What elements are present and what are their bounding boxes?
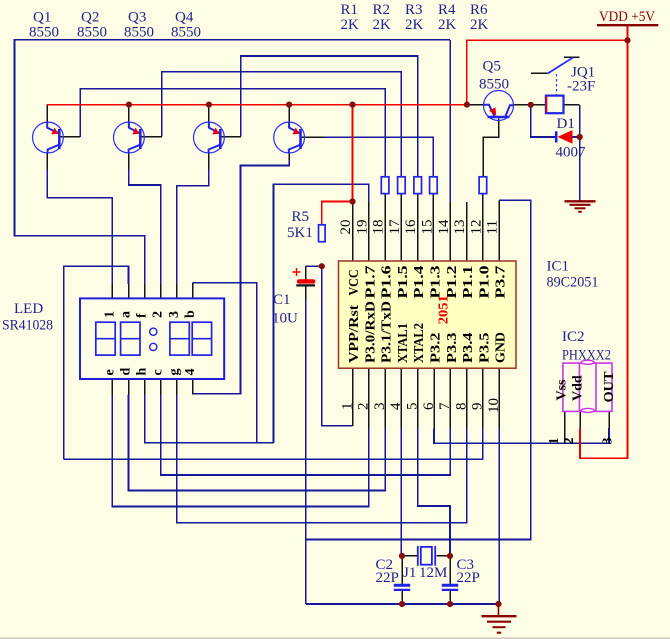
svg-text:89C2051: 89C2051 (547, 275, 599, 291)
svg-text:7: 7 (437, 402, 453, 410)
svg-text:P3.5: P3.5 (477, 333, 492, 364)
svg-text:a: a (119, 311, 134, 318)
svg-text:Vdd: Vdd (571, 375, 586, 401)
svg-text:P3.3: P3.3 (445, 333, 460, 364)
svg-text:VPP/Rst: VPP/Rst (347, 305, 362, 363)
svg-text:R1: R1 (341, 2, 359, 18)
svg-text:R4: R4 (438, 2, 456, 18)
svg-text:1: 1 (339, 403, 355, 411)
svg-text:Q4: Q4 (175, 10, 194, 26)
svg-text:12: 12 (468, 220, 484, 235)
svg-text:2K: 2K (373, 17, 392, 33)
svg-text:19: 19 (354, 220, 370, 235)
svg-text:1: 1 (102, 311, 117, 318)
svg-text:14: 14 (436, 219, 452, 235)
svg-text:10: 10 (486, 398, 502, 413)
svg-text:5: 5 (405, 403, 421, 411)
svg-text:b: b (183, 310, 198, 318)
svg-text:13: 13 (452, 220, 468, 235)
svg-text:PHXXX2: PHXXX2 (562, 348, 611, 364)
svg-text:10U: 10U (272, 311, 298, 327)
svg-text:XTAL2: XTAL2 (412, 323, 427, 363)
svg-text:Vss: Vss (555, 379, 570, 401)
svg-text:8550: 8550 (77, 25, 107, 41)
svg-text:9: 9 (470, 403, 486, 411)
svg-text:2: 2 (562, 438, 577, 445)
svg-text:3: 3 (601, 438, 616, 445)
svg-text:P1.2: P1.2 (445, 266, 460, 299)
svg-text:IC1: IC1 (547, 259, 570, 275)
svg-text:4007: 4007 (556, 145, 587, 161)
svg-text:P3.4: P3.4 (461, 333, 476, 364)
svg-text:2: 2 (151, 311, 166, 318)
svg-text:22P: 22P (457, 570, 480, 586)
svg-text:P1.0: P1.0 (477, 266, 492, 299)
svg-text:f: f (135, 313, 150, 318)
svg-text:IC2: IC2 (562, 329, 585, 345)
svg-text:8550: 8550 (29, 25, 59, 41)
svg-text:12M: 12M (419, 565, 447, 581)
svg-text:17: 17 (387, 219, 403, 235)
svg-text:2K: 2K (438, 17, 457, 33)
svg-text:Q3: Q3 (128, 10, 146, 26)
svg-text:2051: 2051 (437, 295, 452, 324)
svg-text:XTAL1: XTAL1 (396, 323, 411, 363)
svg-text:R2: R2 (373, 2, 391, 18)
svg-text:LED: LED (14, 301, 43, 317)
svg-text:P1.6: P1.6 (380, 266, 395, 299)
svg-text:SR41028: SR41028 (2, 318, 53, 334)
svg-text:h: h (135, 368, 150, 376)
svg-text:g: g (167, 369, 182, 376)
svg-text:C1: C1 (273, 292, 291, 308)
svg-text:R5: R5 (292, 209, 310, 225)
svg-text:D1: D1 (557, 116, 575, 132)
svg-text:P3.7: P3.7 (494, 266, 509, 299)
svg-text:P3.1/TxD: P3.1/TxD (380, 301, 395, 363)
svg-text:Q2: Q2 (81, 10, 99, 26)
svg-text:GND: GND (494, 332, 509, 363)
svg-text:P3.2: P3.2 (429, 333, 444, 364)
svg-text:6: 6 (421, 402, 437, 410)
svg-text:5K1: 5K1 (287, 225, 313, 241)
svg-text:15: 15 (420, 220, 436, 235)
svg-text:R3: R3 (405, 2, 423, 18)
svg-text:P1.5: P1.5 (396, 266, 411, 299)
svg-text:3: 3 (372, 403, 388, 411)
svg-text:20: 20 (338, 220, 354, 235)
svg-text:P1.7: P1.7 (363, 266, 378, 299)
svg-text:2K: 2K (341, 17, 360, 33)
svg-text:P1.3: P1.3 (429, 266, 444, 299)
svg-text:e: e (102, 369, 117, 375)
svg-text:Q1: Q1 (33, 10, 51, 26)
svg-text:R6: R6 (470, 2, 488, 18)
svg-text:2K: 2K (470, 17, 489, 33)
svg-text:8550: 8550 (171, 25, 201, 41)
svg-text:P1.4: P1.4 (412, 266, 427, 299)
svg-text:22P: 22P (376, 570, 399, 586)
svg-text:OUT: OUT (602, 371, 617, 403)
svg-text:Q5: Q5 (483, 59, 501, 75)
svg-text:8: 8 (453, 403, 469, 411)
svg-text:16: 16 (403, 219, 419, 235)
svg-text:11: 11 (485, 220, 501, 234)
svg-text:8550: 8550 (124, 25, 154, 41)
svg-text:2: 2 (356, 403, 372, 411)
svg-text:J1: J1 (403, 565, 416, 581)
svg-text:4: 4 (388, 402, 404, 410)
svg-text:3: 3 (167, 311, 182, 318)
svg-text:P1.1: P1.1 (461, 266, 476, 299)
svg-text:P3.0/RxD: P3.0/RxD (363, 301, 378, 363)
svg-text:2K: 2K (405, 17, 424, 33)
svg-text:8550: 8550 (479, 77, 509, 93)
svg-text:VCC: VCC (347, 270, 362, 296)
svg-text:VDD +5V: VDD +5V (599, 9, 655, 25)
svg-text:c: c (151, 369, 166, 375)
svg-text:d: d (119, 368, 134, 376)
svg-text:-23F: -23F (567, 79, 595, 95)
svg-text:1: 1 (547, 438, 562, 445)
svg-text:4: 4 (183, 369, 198, 376)
svg-text:18: 18 (371, 220, 387, 235)
